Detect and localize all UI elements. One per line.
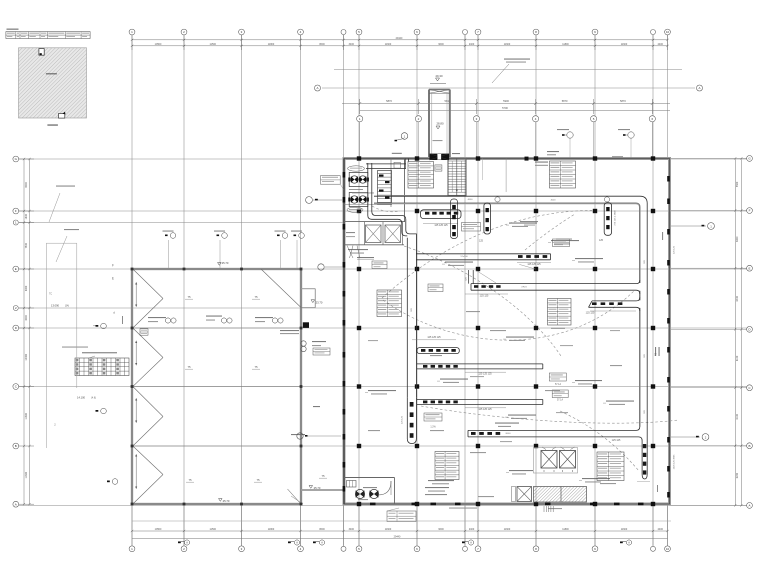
svg-text:11600: 11600	[504, 43, 511, 46]
svg-text:720 125 1.3848: 720 125 1.3848	[615, 210, 617, 226]
svg-text:10: 10	[666, 30, 670, 34]
svg-text:9600: 9600	[438, 43, 444, 46]
svg-text:125 125: 125 125	[612, 439, 621, 442]
svg-text:6000: 6000	[25, 285, 28, 291]
svg-text:5870: 5870	[620, 99, 626, 103]
svg-text:10500: 10500	[155, 528, 162, 531]
svg-text:29440: 29440	[394, 536, 401, 539]
svg-text:FS: FS	[655, 353, 658, 356]
svg-text:11800: 11800	[562, 43, 569, 46]
svg-text:(34): (34)	[65, 305, 69, 308]
svg-text:125 125: 125 125	[402, 415, 404, 424]
svg-text:5700: 5700	[502, 106, 508, 110]
svg-text:3000: 3000	[25, 315, 28, 321]
svg-text:125 125: 125 125	[586, 312, 595, 315]
svg-text:6400: 6400	[736, 295, 739, 301]
svg-text:8600: 8600	[319, 43, 325, 46]
svg-text:A: A	[748, 504, 750, 508]
svg-text:2400: 2400	[469, 528, 475, 531]
svg-text:125 125 125: 125 125 125	[478, 373, 492, 376]
svg-text:8000: 8000	[506, 433, 512, 435]
svg-text:11800: 11800	[268, 528, 275, 531]
svg-text:125: 125	[599, 239, 604, 242]
svg-text:2400: 2400	[469, 43, 475, 46]
svg-text:6100: 6100	[736, 355, 739, 361]
svg-text:E: E	[112, 277, 114, 281]
svg-text:25.70: 25.70	[314, 486, 321, 490]
svg-text:75: 75	[187, 295, 191, 299]
svg-text:75: 75	[254, 295, 258, 299]
svg-text:125 125: 125 125	[674, 245, 676, 254]
svg-text:57.1A: 57.1A	[555, 383, 561, 386]
svg-text:6200: 6200	[736, 472, 739, 478]
svg-text:12x700: 12x700	[460, 256, 468, 258]
svg-text:A: A	[15, 502, 17, 506]
svg-text:3400: 3400	[349, 528, 355, 531]
svg-text:5500: 5500	[736, 181, 739, 187]
svg-text:125 125 125: 125 125 125	[427, 336, 441, 339]
svg-text:23.70: 23.70	[316, 301, 323, 305]
svg-text:A: A	[698, 86, 700, 90]
svg-text:29440: 29440	[396, 37, 403, 40]
svg-text:14.100: 14.100	[77, 396, 85, 400]
svg-text:11500: 11500	[210, 528, 217, 531]
svg-text:11600: 11600	[621, 528, 628, 531]
svg-text:F: F	[749, 209, 751, 213]
svg-text:1.2%: 1.2%	[430, 427, 435, 429]
svg-text:B: B	[15, 444, 17, 448]
svg-text:11500: 11500	[210, 43, 217, 46]
svg-text:1325 125 3865: 1325 125 3865	[674, 454, 676, 469]
svg-text:11600: 11600	[504, 528, 511, 531]
svg-text:(4.6): (4.6)	[91, 397, 96, 400]
svg-text:57.1A: 57.1A	[557, 399, 563, 402]
svg-text:11600: 11600	[385, 528, 392, 531]
svg-text:F: F	[112, 264, 114, 268]
svg-text:7C: 7C	[49, 292, 52, 296]
svg-text:75: 75	[188, 478, 192, 482]
svg-text:11800: 11800	[268, 43, 275, 46]
svg-text:11600: 11600	[621, 43, 628, 46]
svg-text:11800: 11800	[562, 528, 569, 531]
svg-text:9600: 9600	[438, 528, 444, 531]
svg-text:10000: 10000	[25, 353, 28, 360]
svg-text:8600: 8600	[319, 528, 325, 531]
svg-text:125 125 125: 125 125 125	[478, 408, 492, 411]
svg-text:25.70: 25.70	[223, 499, 230, 503]
svg-text:11600: 11600	[25, 471, 28, 478]
svg-text:75: 75	[321, 474, 325, 478]
svg-text:75: 75	[187, 365, 191, 369]
svg-text:125 125 125: 125 125 125	[434, 224, 448, 227]
svg-text:B: B	[748, 444, 750, 448]
svg-text:10500: 10500	[155, 43, 162, 46]
svg-text:4000: 4000	[468, 199, 474, 201]
svg-text:4000: 4000	[551, 200, 557, 202]
svg-text:75: 75	[256, 478, 260, 482]
svg-text:13.090: 13.090	[51, 304, 59, 308]
svg-text:5900: 5900	[503, 99, 509, 103]
svg-text:3400: 3400	[349, 43, 355, 46]
svg-text:1800: 1800	[25, 213, 28, 219]
svg-text:E: E	[15, 267, 17, 271]
svg-text:5870: 5870	[562, 99, 568, 103]
svg-text:28.80: 28.80	[437, 122, 444, 126]
svg-text:2400: 2400	[658, 43, 664, 46]
svg-text:75: 75	[254, 365, 258, 369]
svg-text:XF23: XF23	[521, 287, 527, 289]
svg-text:E: E	[748, 266, 750, 270]
svg-text:125: 125	[479, 240, 484, 243]
svg-text:6100: 6100	[736, 413, 739, 419]
svg-text:7500: 7500	[25, 242, 28, 248]
svg-text:29.30: 29.30	[436, 74, 443, 78]
svg-text:25.70: 25.70	[222, 261, 229, 265]
svg-text:9000: 9000	[25, 182, 28, 188]
svg-text:11600: 11600	[385, 43, 392, 46]
svg-text:6000: 6000	[736, 236, 739, 242]
svg-text:F: F	[15, 209, 17, 213]
svg-text:10: 10	[666, 547, 670, 551]
svg-text:2400: 2400	[658, 528, 664, 531]
svg-text:125 125: 125 125	[480, 295, 489, 298]
svg-text:125 125 125: 125 125 125	[527, 263, 541, 266]
svg-text:5870: 5870	[386, 99, 392, 103]
svg-text:A: A	[316, 86, 318, 90]
svg-text:11800: 11800	[25, 412, 28, 419]
